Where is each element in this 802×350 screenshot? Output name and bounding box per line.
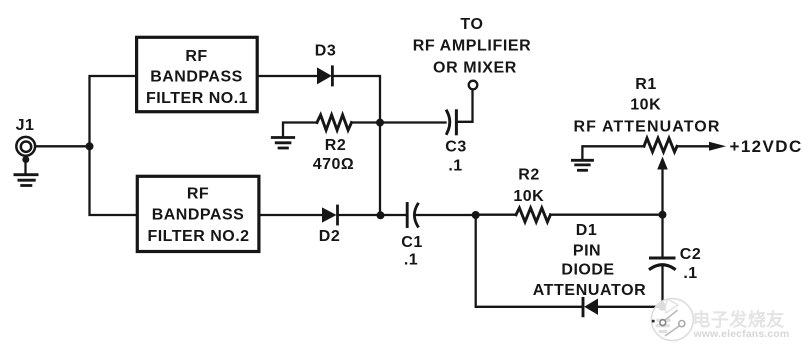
resistor R1 potentiometer zigzag [644,138,677,152]
svg-text:电子发烧友: 电子发烧友 [693,309,785,330]
svg-text:D2: D2 [319,228,340,245]
junction dot under J1 [22,156,29,163]
svg-text:C1: C1 [401,234,422,251]
svg-text:DIODE: DIODE [561,262,614,279]
junction dot at x380 y215 [377,211,385,219]
wire R1 right to +12VDC arrow [677,145,710,147]
wire junction up to wiper [661,169,663,215]
svg-text:PIN: PIN [573,243,601,260]
wire junction to R2 10K [476,214,516,216]
svg-text:10K: 10K [630,97,661,114]
wire left vertical down to bottom [476,215,583,307]
svg-text:BANDPASS: BANDPASS [150,69,243,86]
ground at R2 470 [272,123,317,149]
wire vertical branch to both filters [90,76,137,215]
svg-text:+12VDC: +12VDC [730,137,802,156]
capacitor C2 [650,258,674,269]
diode D1 pointing left [583,298,598,315]
junction dot at x379 y122 [376,119,384,127]
junction dot at x662 y306 [659,303,667,311]
svg-text:www.elecfans.com: www.elecfans.com [693,329,790,340]
diode D3 [317,67,332,85]
svg-text:ATTENUATOR: ATTENUATOR [533,282,647,299]
svg-text:R1: R1 [635,76,656,93]
resistor R2 10K zigzag [516,208,550,222]
capacitor C1 [407,204,418,227]
wire filter2 to D2 [260,214,322,216]
label RF BANDPASS FILTER NO.1 [146,48,248,107]
wire up from bottom junction to C2 [661,266,663,307]
svg-text:RF AMPLIFIER: RF AMPLIFIER [413,38,532,55]
svg-text:RF ATTENUATOR: RF ATTENUATOR [573,119,720,136]
connector J1 [16,137,35,156]
svg-text:BANDPASS: BANDPASS [152,207,245,224]
wire C2 to junction at 215 [661,215,663,256]
label RF BANDPASS FILTER NO.2 [147,186,249,245]
wire R2 to C3 [352,121,446,123]
junction dot at x475 y215 [472,211,480,219]
capacitor C3 [447,111,457,134]
arrow to +12VDC [709,142,726,151]
label TO RF AMPLIFIER OR MIXER [413,16,532,76]
svg-text:D1: D1 [576,222,597,239]
wire D1 to right junction [598,306,663,308]
svg-text:10K: 10K [513,188,544,205]
svg-text:FILTER NO.2: FILTER NO.2 [147,228,249,245]
svg-text:R2: R2 [518,167,539,184]
watermark logo circle [651,299,693,341]
resistor R2 470 zigzag [317,115,352,130]
wire D2 to junction [338,214,382,216]
svg-text:.1: .1 [683,265,697,282]
svg-text:D3: D3 [315,43,336,60]
ground under J1 [15,175,37,186]
RF bandpass filter no.2 box [137,176,259,251]
junction dot at J1 branch [86,142,94,150]
svg-text:OR MIXER: OR MIXER [433,59,517,76]
svg-text:J1: J1 [16,117,35,134]
wire filter1 to D3 [258,75,318,77]
RF bandpass filter no.1 box [137,37,258,111]
wire R2 10K to right junction [550,214,662,216]
svg-text:FILTER NO.1: FILTER NO.1 [146,90,248,107]
svg-text:RF: RF [187,186,209,203]
wire D3 to corner and down [332,76,380,215]
junction dot at x662 y215 [659,211,667,219]
wire junction to C1 [380,214,407,216]
ground at R1 [572,160,592,170]
svg-text:C3: C3 [445,139,466,156]
wire C1 to junction [417,214,476,216]
svg-text:C2: C2 [680,246,701,263]
diode D2 [322,206,338,224]
wire J1 to node [35,145,89,147]
open terminal circle [469,81,478,90]
svg-text:470Ω: 470Ω [313,156,355,173]
svg-text:RF: RF [185,48,207,65]
wiper arrow of R1 [657,157,668,170]
wire J1 stub to ground [24,156,26,173]
svg-text:.1: .1 [404,252,418,269]
watermark stray dot [652,320,655,323]
svg-text:TO: TO [460,16,483,33]
label D1 PIN DIODE ATTENUATOR [533,222,647,299]
wire C3 up to terminal [456,89,472,121]
svg-text:R2: R2 [325,137,346,154]
svg-text:.1: .1 [448,158,462,175]
wire R1 left to ground [582,146,644,158]
